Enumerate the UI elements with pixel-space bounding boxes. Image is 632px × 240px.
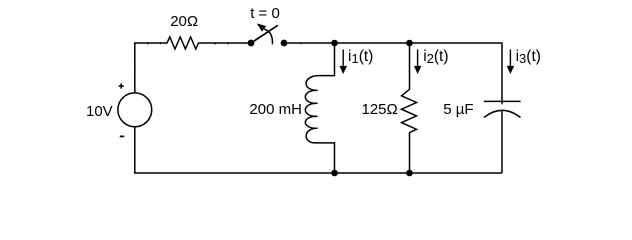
svg-text:i1(t): i1(t) bbox=[348, 48, 373, 66]
svg-text:i2(t): i2(t) bbox=[423, 48, 448, 66]
svg-text:125Ω: 125Ω bbox=[362, 101, 398, 118]
svg-text:20Ω: 20Ω bbox=[170, 13, 198, 30]
svg-text:5 µF: 5 µF bbox=[443, 101, 473, 118]
svg-text:i3(t): i3(t) bbox=[516, 48, 541, 66]
svg-text:10V: 10V bbox=[86, 103, 113, 120]
svg-text:200 mH: 200 mH bbox=[249, 101, 302, 118]
svg-text:t = 0: t = 0 bbox=[250, 5, 280, 22]
